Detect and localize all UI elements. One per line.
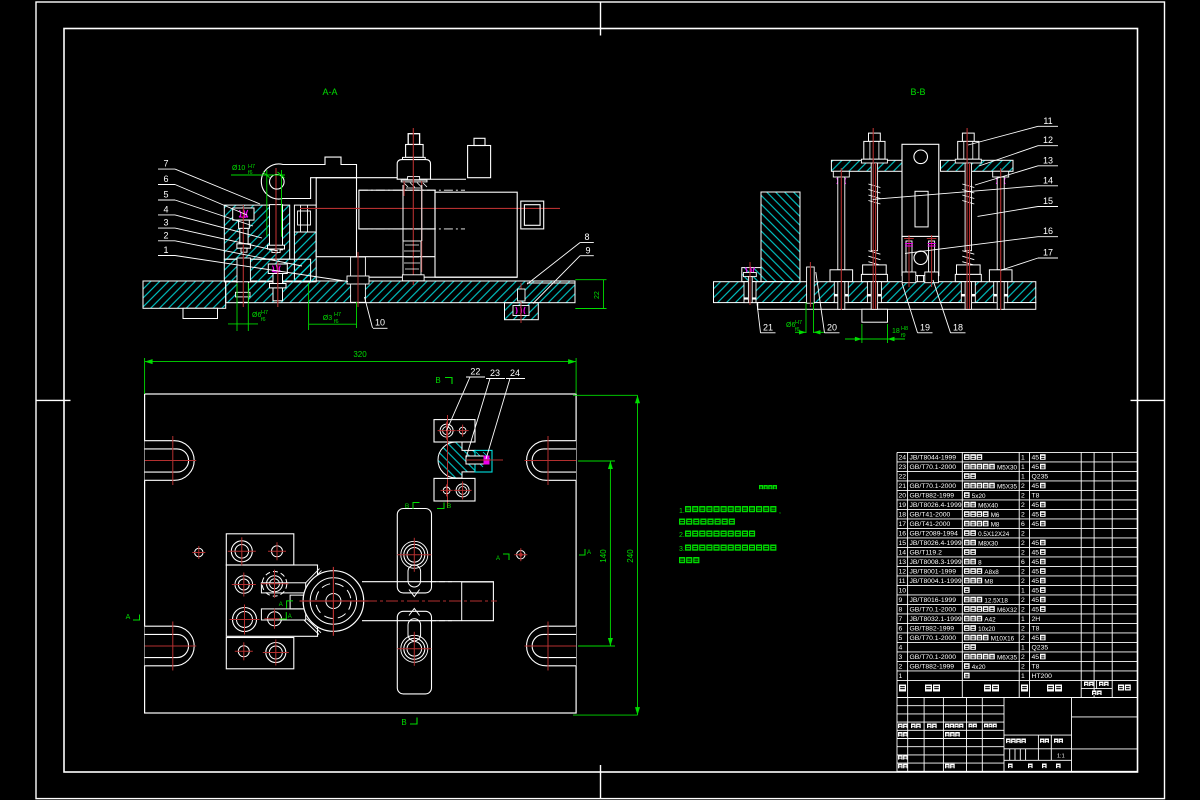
BB stud left hex head <box>864 141 885 159</box>
parts table grid <box>897 452 1138 697</box>
dim phi35 extension lines <box>308 283 310 330</box>
BB stud right centerline <box>966 128 968 309</box>
svg-text:2: 2 <box>1021 531 1025 538</box>
centering mark top <box>600 2 602 36</box>
chamfer diagonals lower <box>304 620 319 635</box>
svg-text:1: 1 <box>1021 588 1025 595</box>
center boss crosshair <box>300 600 369 602</box>
spring stack <box>403 241 421 275</box>
svg-text:H7: H7 <box>795 320 802 326</box>
body center band <box>359 190 435 229</box>
svg-text:240: 240 <box>626 549 635 563</box>
svg-text:H7: H7 <box>334 312 341 318</box>
svg-text:24: 24 <box>510 368 520 378</box>
svg-text:2: 2 <box>1021 493 1025 500</box>
svg-text:Ø10: Ø10 <box>232 165 245 172</box>
BB stud left washer <box>861 159 887 163</box>
svg-text:10x20: 10x20 <box>978 626 996 633</box>
svg-text:9: 9 <box>585 246 590 256</box>
BB dim phi6 left <box>805 303 807 334</box>
BB workpiece lower lug <box>902 236 939 275</box>
boss screw shank in plate <box>518 289 526 301</box>
BB rod left nut <box>830 270 853 282</box>
hole bottom-small <box>238 646 249 657</box>
BB stud right spring upper <box>962 184 974 204</box>
BB stud right washer <box>955 159 981 163</box>
boss screw head magenta <box>513 306 529 316</box>
BB stud left centerline <box>872 128 874 309</box>
top bolt dome head <box>397 160 430 180</box>
BB rod left below shank <box>838 282 845 310</box>
svg-text:2: 2 <box>1021 550 1025 557</box>
right tower cap <box>474 138 485 145</box>
BB bottom step <box>862 309 888 322</box>
dim 320 extension lines <box>144 358 146 394</box>
base plate foot <box>183 308 218 318</box>
BB dowel pin 20 <box>807 267 815 303</box>
svg-text:15: 15 <box>1043 196 1053 206</box>
svg-text:JB/T8016-1999: JB/T8016-1999 <box>910 597 957 604</box>
slider bottom bolt <box>404 638 425 659</box>
parts table rows text <box>899 455 1053 681</box>
svg-text:M6X35: M6X35 <box>997 654 1017 661</box>
svg-text:8: 8 <box>584 232 589 242</box>
body top line right of dome <box>431 178 467 180</box>
svg-text:13: 13 <box>1043 155 1053 165</box>
BB left bolt magenta <box>746 267 755 274</box>
slider arrows bottom <box>409 609 420 616</box>
bracket middle clamp <box>438 442 475 478</box>
bracket bolt TL <box>440 424 453 437</box>
svg-text:GB/T70.1-2000: GB/T70.1-2000 <box>910 464 957 471</box>
body bottom line <box>435 276 517 278</box>
svg-text:17: 17 <box>899 521 907 528</box>
svg-text:1: 1 <box>1021 455 1025 462</box>
BB workpiece window <box>915 191 928 227</box>
BB left column block <box>761 192 800 282</box>
svg-text:2H: 2H <box>1032 616 1041 623</box>
clamp bolt 1 shank <box>240 228 248 243</box>
lug boss outline <box>261 164 300 199</box>
title block outline <box>897 698 1138 772</box>
top bolt washer detail <box>401 180 427 182</box>
BB stud left spring upper <box>868 184 880 204</box>
clamp block right column <box>294 232 316 282</box>
svg-text:12: 12 <box>1043 135 1053 145</box>
svg-text:11: 11 <box>1043 116 1052 126</box>
dim 22 right <box>575 279 606 281</box>
svg-text:A: A <box>587 550 591 556</box>
BB workpiece lower hole <box>914 251 927 264</box>
svg-text:B: B <box>447 503 451 510</box>
svg-text:19: 19 <box>920 323 930 333</box>
BB left bolt centerline <box>749 262 751 305</box>
svg-text:A: A <box>279 602 283 608</box>
svg-text:45: 45 <box>1032 483 1040 490</box>
section mark A right <box>579 549 585 555</box>
table header texts <box>899 685 906 692</box>
notes title <box>759 485 763 489</box>
BB short bolt right <box>929 241 935 272</box>
svg-text:22: 22 <box>899 474 907 481</box>
left plate slot upper <box>261 583 305 593</box>
BB rod left centerline <box>840 168 842 310</box>
svg-text:6: 6 <box>1021 521 1025 528</box>
right flange inner square <box>524 205 540 226</box>
svg-text:M5X35: M5X35 <box>997 483 1017 490</box>
svg-text:5x20: 5x20 <box>972 493 986 500</box>
BB top plate right section <box>941 160 1014 171</box>
svg-text:GB/T70.1-2000: GB/T70.1-2000 <box>910 635 957 642</box>
parts table name blobs <box>964 454 970 460</box>
svg-text:M10X16: M10X16 <box>991 635 1015 642</box>
svg-text:GB/T70.1-2000: GB/T70.1-2000 <box>910 654 957 661</box>
svg-text:21: 21 <box>899 483 907 490</box>
BB stud right hex head <box>958 141 979 159</box>
svg-text:B: B <box>405 503 409 510</box>
svg-text:3: 3 <box>899 654 903 661</box>
svg-text:6: 6 <box>1021 559 1025 566</box>
svg-text:1: 1 <box>163 245 168 255</box>
svg-text:1: 1 <box>1021 673 1025 680</box>
svg-text:20: 20 <box>899 493 907 500</box>
svg-text:B: B <box>401 718 406 727</box>
svg-text:1.: 1. <box>679 508 685 515</box>
svg-text:320: 320 <box>353 350 367 359</box>
centering mark right <box>1131 399 1165 401</box>
locating pin tip <box>272 249 280 253</box>
pin centerline <box>275 168 277 260</box>
bracket bolt BR <box>456 484 469 497</box>
svg-text:20: 20 <box>827 323 837 333</box>
svg-text:6: 6 <box>163 174 168 184</box>
svg-text:A: A <box>496 556 500 562</box>
BB stud left top small rect <box>869 133 881 141</box>
left plate bottom <box>226 638 293 669</box>
svg-text:21: 21 <box>763 323 773 333</box>
BB stud right nut stack <box>957 265 981 275</box>
svg-text:2: 2 <box>1021 626 1025 633</box>
svg-text:JB/T8001-1999: JB/T8001-1999 <box>910 569 957 576</box>
dim 240 line <box>573 394 638 396</box>
clamp screw 2 shank <box>273 274 283 301</box>
left plate top <box>226 534 293 565</box>
svg-text:2: 2 <box>1021 578 1025 585</box>
svg-text:45: 45 <box>1032 502 1040 509</box>
bolt mid-right <box>262 572 287 597</box>
centering mark bottom <box>600 765 602 799</box>
bracket red vertical centerline <box>447 415 449 508</box>
plan plate outline <box>145 394 576 713</box>
svg-text:45: 45 <box>1032 654 1040 661</box>
centering mark left <box>36 399 71 401</box>
bolt bottom-right <box>266 643 286 663</box>
BB left bolt shank <box>748 277 752 303</box>
svg-text:45: 45 <box>1032 607 1040 614</box>
BB lug feet <box>905 276 918 282</box>
svg-text:GB/T70.1-2000: GB/T70.1-2000 <box>910 483 957 490</box>
svg-text:19: 19 <box>899 502 907 509</box>
dowel pin left <box>195 548 203 556</box>
svg-text:Q235: Q235 <box>1032 474 1049 481</box>
BB short bolt right head <box>925 272 939 283</box>
BB rod right nut <box>989 270 1012 282</box>
BB short bolt left <box>906 241 912 272</box>
slider top slot <box>408 565 421 587</box>
BB top plate left section <box>831 160 902 171</box>
svg-text:GB/T882-1999: GB/T882-1999 <box>910 626 955 633</box>
BB left column foot <box>742 268 761 282</box>
body main centerline horizontal <box>300 207 560 209</box>
BB workpiece top hole <box>914 150 928 164</box>
svg-text:GB/T119.2: GB/T119.2 <box>910 550 943 557</box>
BB stud right spring lower <box>962 251 974 266</box>
body lower-left block <box>357 256 436 258</box>
svg-text:A: A <box>126 614 131 621</box>
svg-text:M6: M6 <box>991 512 1000 519</box>
left plate key step <box>290 595 306 609</box>
svg-text:f9: f9 <box>901 333 906 339</box>
BB short bolt right centerline <box>931 235 933 287</box>
svg-text:f6: f6 <box>248 170 253 176</box>
BB rod left washer <box>833 171 849 177</box>
svg-text:14: 14 <box>1043 175 1053 185</box>
BB short bolt left centerline <box>908 235 910 287</box>
slider top bolt <box>404 544 425 565</box>
section mark B bracket-top <box>437 503 444 509</box>
BB rod right centerline <box>1000 168 1002 310</box>
BB stud right below-plate shank <box>965 282 971 310</box>
body right block <box>435 192 517 277</box>
svg-text:T8: T8 <box>1032 664 1040 671</box>
BB left bolt plate hole <box>744 282 756 303</box>
corner slot top-left <box>145 440 175 480</box>
svg-text:45: 45 <box>1032 540 1040 547</box>
clamp bolt 1 thread magenta <box>239 210 248 219</box>
bracket bolt centerline <box>466 459 503 461</box>
svg-text:4x20: 4x20 <box>972 664 986 671</box>
svg-text:4: 4 <box>899 645 903 652</box>
svg-text:5: 5 <box>899 635 903 642</box>
top bolt flange <box>403 157 426 159</box>
bracket magenta nut <box>484 456 490 465</box>
svg-text:M8X30: M8X30 <box>978 540 998 547</box>
section dowel right <box>517 551 525 559</box>
BB base plate <box>714 282 1036 303</box>
svg-text:A: A <box>288 614 292 620</box>
support strip line right <box>527 282 574 284</box>
svg-text:45: 45 <box>1032 635 1040 642</box>
locating pin flange <box>268 245 285 249</box>
svg-text:1: 1 <box>1021 645 1025 652</box>
T-slot bolt centerline <box>357 252 359 307</box>
svg-text:3: 3 <box>163 218 168 228</box>
svg-text:GB/T882-1999: GB/T882-1999 <box>910 493 955 500</box>
svg-text:16: 16 <box>899 531 907 538</box>
svg-text:45: 45 <box>1032 464 1040 471</box>
clamp screw 2 nut bar <box>270 284 287 288</box>
svg-text:22: 22 <box>594 291 601 299</box>
corner slot bottom-left <box>145 626 175 666</box>
BB short bolt left head <box>902 272 916 283</box>
note line 5 <box>679 557 685 563</box>
svg-text:10: 10 <box>899 588 907 595</box>
svg-text:JB/T8044-1999: JB/T8044-1999 <box>910 455 957 462</box>
clamp bolt 1 tip <box>241 248 247 252</box>
svg-text:2: 2 <box>899 664 903 671</box>
svg-text:2: 2 <box>1021 664 1025 671</box>
lug hole <box>270 175 285 190</box>
svg-text:23: 23 <box>899 464 907 471</box>
svg-text:22: 22 <box>470 366 480 376</box>
svg-text:T8: T8 <box>1032 626 1040 633</box>
dim phi6 line+arrows <box>228 323 258 325</box>
svg-text:45: 45 <box>1032 569 1040 576</box>
left plate slot lower <box>261 609 305 620</box>
svg-text:A42: A42 <box>984 616 996 623</box>
BB dowel pin centerline <box>809 262 811 307</box>
svg-text:1: 1 <box>1021 464 1025 471</box>
base plate bottom center boss <box>505 303 539 320</box>
svg-text:45: 45 <box>1032 597 1040 604</box>
svg-text:8: 8 <box>978 559 982 566</box>
title block small texts <box>898 724 903 729</box>
svg-text:18: 18 <box>953 323 963 333</box>
body top-left profile <box>300 157 357 198</box>
BB stud left below-plate shank <box>871 282 877 310</box>
svg-text:2: 2 <box>1021 512 1025 519</box>
BB dim 18H8 center <box>861 324 863 343</box>
svg-text:Q235: Q235 <box>1032 645 1049 652</box>
svg-text:3.: 3. <box>679 546 685 553</box>
BB rod left <box>838 177 845 270</box>
BB rod right below shank <box>997 282 1004 310</box>
svg-text:M5X30: M5X30 <box>997 464 1017 471</box>
svg-text:2: 2 <box>1021 635 1025 642</box>
clamp bolt 1 neck <box>239 220 250 228</box>
svg-text:45: 45 <box>1032 578 1040 585</box>
svg-text:2: 2 <box>1021 502 1025 509</box>
svg-text:A-A: A-A <box>322 87 337 97</box>
piston rod outline <box>402 185 404 241</box>
svg-text:1:1: 1:1 <box>1057 754 1065 760</box>
svg-text:23: 23 <box>490 368 500 378</box>
svg-text:B-B: B-B <box>910 87 925 97</box>
bolt top-left <box>231 541 252 562</box>
svg-text:GB/T2089-1994: GB/T2089-1994 <box>910 531 959 538</box>
BB left bolt washer <box>743 273 756 277</box>
arm centerline <box>365 600 497 602</box>
BB stud left rod <box>871 163 877 251</box>
dim phi6 extension lines <box>236 283 238 331</box>
dim 320 line <box>145 361 576 363</box>
svg-text:GB/T70.1-2000: GB/T70.1-2000 <box>910 607 957 614</box>
bracket hole BL <box>443 487 450 494</box>
hole lower-right <box>268 612 282 626</box>
svg-text:15: 15 <box>899 540 907 547</box>
svg-text:A8x8: A8x8 <box>984 569 999 576</box>
svg-text:17: 17 <box>1043 248 1053 258</box>
svg-text:1: 1 <box>1021 616 1025 623</box>
top bolt centerline <box>412 128 414 285</box>
svg-text:45: 45 <box>1032 455 1040 462</box>
svg-text:16: 16 <box>1043 226 1053 236</box>
svg-text:f6: f6 <box>261 317 266 323</box>
body center band upper line <box>357 177 398 179</box>
dim phi10 arrow line <box>231 174 285 176</box>
dim 140 line <box>578 460 615 462</box>
svg-text:JB/T8004.1-1999: JB/T8004.1-1999 <box>910 578 962 585</box>
dowel hole below bolt 1 <box>237 258 250 282</box>
body hidden line upper <box>359 189 465 191</box>
svg-text:2: 2 <box>1021 569 1025 576</box>
left plate middle <box>226 565 317 636</box>
svg-text:12: 12 <box>899 569 907 576</box>
svg-text:4: 4 <box>163 204 168 214</box>
svg-text:f6: f6 <box>334 319 339 325</box>
top bolt collar <box>406 145 424 158</box>
svg-text:2: 2 <box>1021 607 1025 614</box>
bracket bolt shaft <box>466 456 488 464</box>
right tower <box>468 146 491 178</box>
svg-text:2.: 2. <box>679 532 685 539</box>
svg-text:GB/T41-2000: GB/T41-2000 <box>910 521 951 528</box>
svg-text:2: 2 <box>1021 654 1025 661</box>
body hidden line lower <box>359 228 465 230</box>
svg-text:GB/T882-1999: GB/T882-1999 <box>910 664 955 671</box>
chamfer diagonals upper <box>306 569 320 583</box>
svg-text:9: 9 <box>899 597 903 604</box>
base plate main <box>226 281 575 303</box>
slider top <box>397 509 431 593</box>
svg-text:B: B <box>435 376 440 385</box>
BB base plate lower strip <box>758 303 1036 310</box>
base plate left block part 1 <box>143 281 226 308</box>
clamp block upper <box>224 205 289 259</box>
svg-text:24: 24 <box>899 455 907 462</box>
svg-text:1: 1 <box>1021 474 1025 481</box>
svg-text:JB/T8008.3-1999: JB/T8008.3-1999 <box>910 559 962 566</box>
clamp screw 2 magenta thread <box>272 265 281 273</box>
T-slot bolt nut <box>347 276 369 284</box>
top bolt tip <box>408 134 419 145</box>
right flange square <box>521 201 544 229</box>
bracket top box <box>434 420 475 442</box>
svg-text:18: 18 <box>892 328 900 335</box>
dim phi35 line <box>309 323 357 325</box>
slider arrows top <box>409 590 420 597</box>
title block sheet count texts <box>1008 764 1013 769</box>
svg-text:5: 5 <box>163 190 168 200</box>
svg-text:M6X32: M6X32 <box>997 607 1017 614</box>
body left column <box>316 178 356 257</box>
bracket bottom box <box>434 478 475 501</box>
svg-text:2: 2 <box>1021 483 1025 490</box>
svg-text:7: 7 <box>163 159 168 169</box>
BB stud left plate hole <box>867 282 881 303</box>
svg-text:6: 6 <box>899 626 903 633</box>
bolt 1 centerline <box>242 205 244 307</box>
BB workpiece column upper <box>902 144 939 240</box>
svg-text:M6X40: M6X40 <box>978 502 998 509</box>
svg-text:45: 45 <box>1032 588 1040 595</box>
arm break dash lines <box>430 581 452 583</box>
dim phi10 vertical lines <box>266 170 268 237</box>
svg-text:T8: T8 <box>1032 493 1040 500</box>
svg-text:H8: H8 <box>901 326 908 332</box>
BB stud right top small rect <box>962 133 974 141</box>
top bolt base collar <box>408 177 420 180</box>
